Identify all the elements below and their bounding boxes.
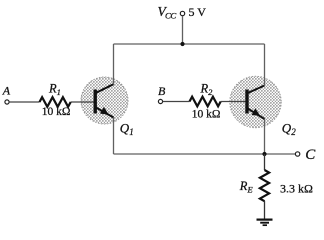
wire RE to ground [264,201,266,220]
Q2 label [282,120,296,137]
R2 value label 10 k&#937; [192,108,221,120]
node C [295,147,316,163]
transistor Q2 shaded circle [230,76,281,127]
svg-text:5 V: 5 V [189,5,207,19]
wire VCC drop [182,16,184,44]
wire R2 to Q2 base [221,101,246,103]
wire bottom rail [114,153,296,155]
wire Q2 collector to top rail [264,44,266,86]
RE value label 3.3 k&#937; [280,182,313,196]
svg-text:10 kΩ: 10 kΩ [192,108,221,120]
transistor Q2 symbol [247,86,265,120]
node B [158,84,166,104]
junction VCC/top rail [180,42,184,46]
wire Q2 emitter down to bottom rail [264,119,266,155]
transistor Q1 shaded circle [81,77,128,124]
R1 value label 10 k&#937; [42,106,71,118]
wire top rail [114,43,265,45]
wire B to R2 [163,101,190,103]
Q1 label [120,120,134,137]
wire junction to RE [264,154,266,170]
ground [257,220,273,226]
svg-text:B: B [158,84,166,98]
RE label [239,179,254,194]
svg-text:A: A [2,84,11,98]
node A [2,84,11,104]
R2 label [200,82,214,97]
wire Q1 emitter down to bottom rail [113,117,115,154]
svg-text:C: C [305,147,316,163]
R1 label [48,82,61,97]
wire R1 to Q1 base [71,101,94,103]
svg-text:10 kΩ: 10 kΩ [42,106,71,118]
junction bottom rail / RE [262,152,266,156]
power VCC terminal [158,4,207,21]
transistor Q1 symbol [95,84,113,117]
wire Q1 collector to top rail [113,44,115,85]
resistor RE [260,170,269,201]
resistor R2 [190,97,221,107]
resistor R1 [40,97,71,107]
svg-text:3.3 kΩ: 3.3 kΩ [280,182,313,196]
wire A to R1 [9,101,39,103]
